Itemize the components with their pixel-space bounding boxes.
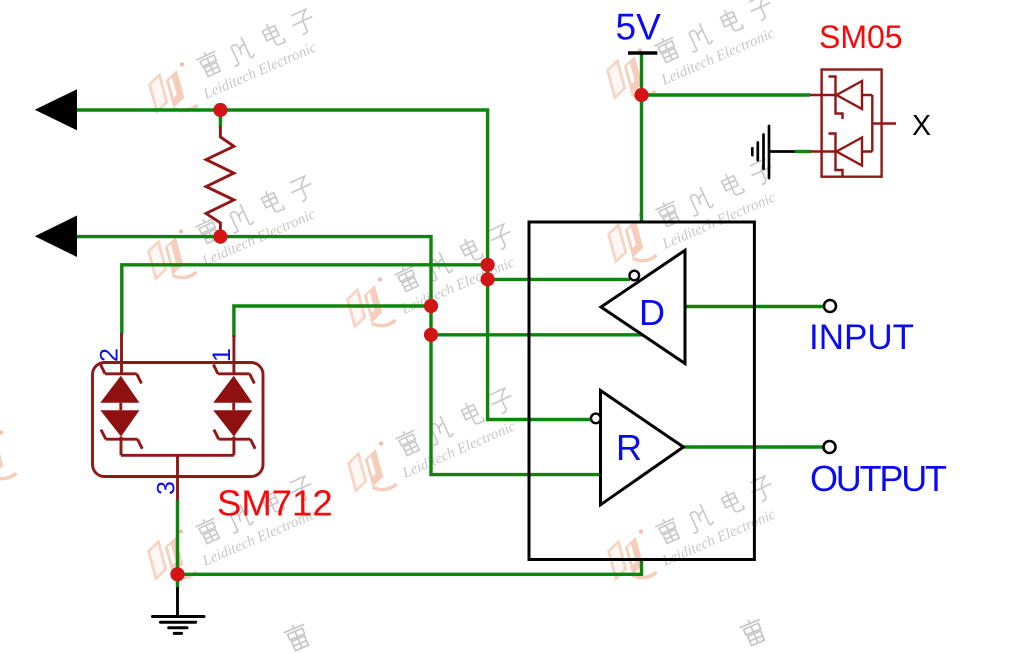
- svg-text:3: 3: [153, 481, 181, 495]
- svg-text:2: 2: [96, 348, 124, 362]
- svg-text:X: X: [912, 110, 931, 142]
- svg-text:D: D: [639, 292, 665, 333]
- svg-text:OUTPUT: OUTPUT: [810, 458, 947, 499]
- svg-text:R: R: [616, 427, 642, 468]
- svg-text:SM05: SM05: [819, 19, 903, 55]
- svg-text:INPUT: INPUT: [809, 318, 914, 357]
- svg-text:1: 1: [208, 348, 236, 362]
- svg-text:5V: 5V: [616, 7, 662, 48]
- svg-text:SM712: SM712: [217, 483, 333, 524]
